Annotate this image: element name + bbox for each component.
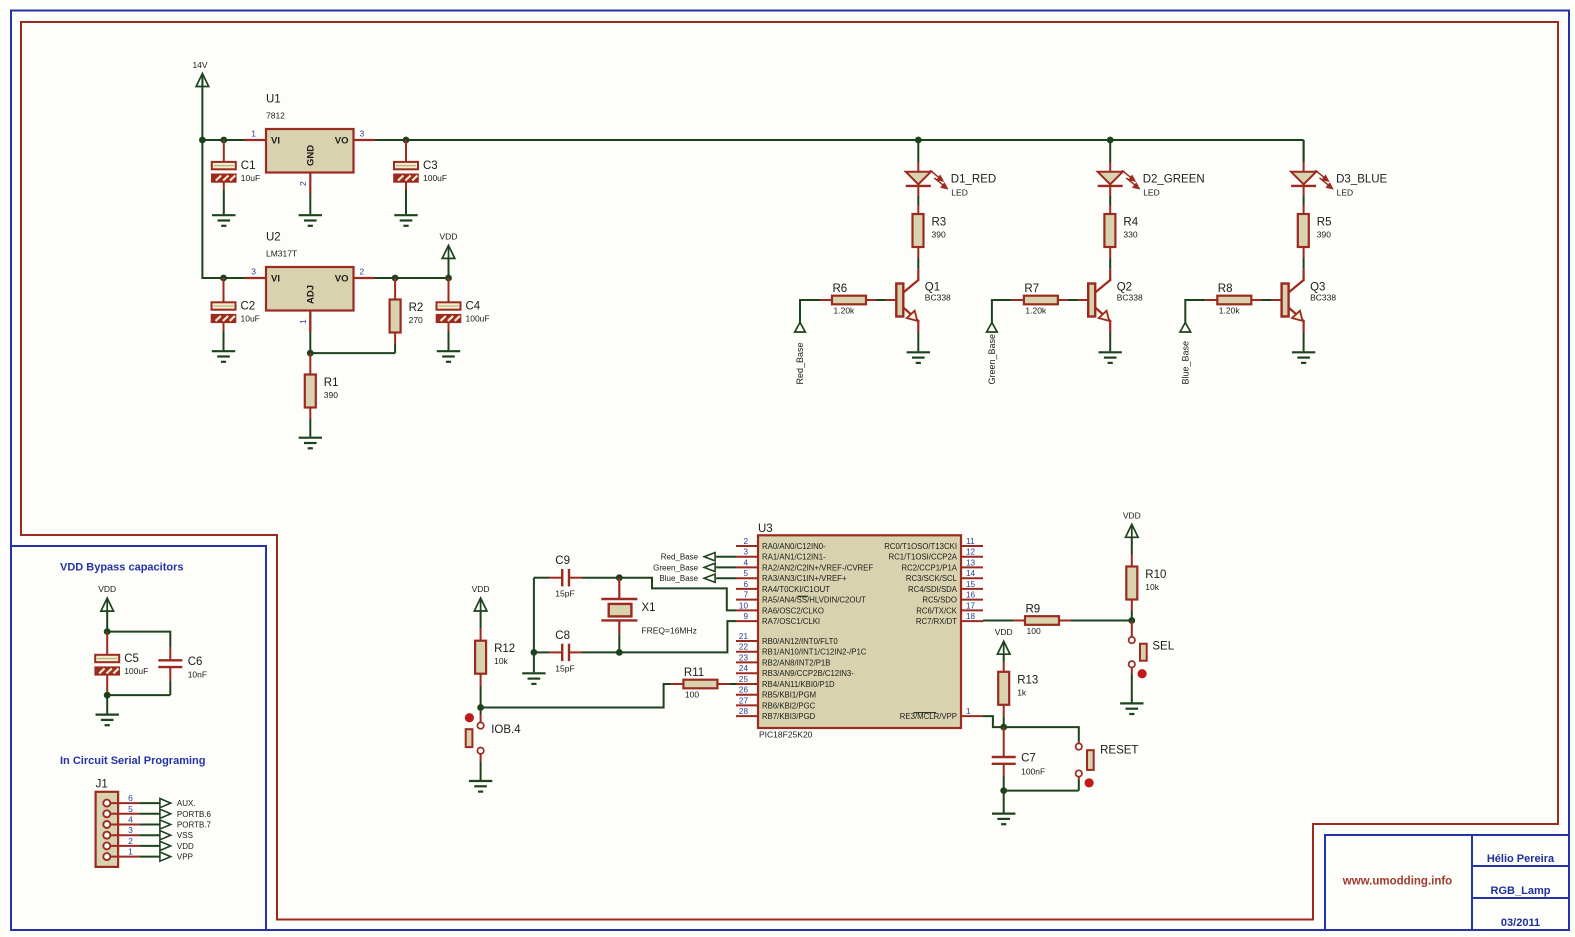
ground C2 [212, 351, 235, 362]
node OSC2 rail [616, 574, 623, 581]
svg-text:25: 25 [739, 675, 749, 684]
svg-text:Green_Base: Green_Base [653, 563, 698, 572]
svg-text:Blue_Base: Blue_Base [659, 574, 698, 583]
svg-text:14V: 14V [192, 60, 207, 70]
svg-text:26: 26 [739, 686, 749, 695]
svg-text:4: 4 [128, 815, 133, 825]
svg-text:330: 330 [1123, 230, 1137, 240]
node bypass bottom [104, 692, 111, 699]
ground C4 [437, 351, 460, 362]
wire [223, 140, 225, 152]
wire [375, 277, 449, 279]
wire to R11 [481, 684, 672, 708]
capacitor C2 [212, 300, 260, 323]
wire [1109, 140, 1111, 162]
wire [569, 651, 582, 653]
wire [223, 182, 225, 191]
svg-text:C3: C3 [423, 160, 438, 172]
wire [106, 674, 108, 682]
wire [405, 140, 407, 152]
svg-text:PIC18F25K20: PIC18F25K20 [759, 730, 813, 740]
svg-text:16: 16 [966, 591, 976, 600]
svg-text:R6: R6 [833, 283, 848, 295]
wire [1068, 299, 1078, 301]
svg-text:1.20k: 1.20k [834, 306, 856, 316]
svg-text:Red_Base: Red_Base [795, 342, 805, 384]
wire [1003, 705, 1005, 717]
svg-text:100uF: 100uF [423, 173, 447, 183]
resistor R9 [1025, 604, 1059, 637]
svg-text:LED: LED [1143, 187, 1160, 197]
svg-text:10uF: 10uF [241, 314, 260, 324]
wire [394, 344, 396, 353]
wire [1059, 620, 1071, 622]
wire [1303, 333, 1305, 352]
node Blue_Base terminal [1180, 323, 1191, 385]
wire [106, 632, 108, 645]
capacitor C4 [437, 300, 490, 323]
wire [917, 258, 919, 269]
svg-text:PORTB.7: PORTB.7 [177, 821, 212, 830]
svg-text:4: 4 [743, 558, 748, 567]
svg-text:LM317T: LM317T [266, 249, 297, 259]
wire [983, 620, 1013, 622]
ground bypass [96, 715, 119, 726]
connector J1 [96, 779, 140, 867]
wire [480, 611, 482, 628]
wire [1003, 727, 1005, 744]
svg-text:GND: GND [306, 145, 317, 166]
node 14V rail [199, 137, 206, 144]
svg-text:www.umodding.info: www.umodding.info [1342, 876, 1452, 888]
svg-text:ADJ: ADJ [306, 285, 317, 304]
svg-text:X1: X1 [642, 602, 656, 614]
wire [1131, 611, 1133, 621]
wire [729, 683, 736, 685]
resistor R11 [683, 667, 717, 700]
wire [405, 152, 407, 162]
ground Q3 [1292, 352, 1315, 363]
svg-text:1: 1 [128, 847, 133, 857]
wire to RESET [1004, 727, 1079, 741]
wire [717, 683, 729, 685]
svg-text:27: 27 [739, 696, 749, 705]
node VDD terminal [160, 841, 194, 851]
wire [1303, 162, 1305, 172]
svg-text:R12: R12 [494, 643, 515, 655]
wire [354, 139, 375, 141]
node Red_Base terminal [795, 323, 806, 385]
svg-text:C2: C2 [241, 300, 256, 312]
svg-text:10uF: 10uF [241, 173, 260, 183]
svg-text:VO: VO [335, 274, 349, 285]
svg-text:SEL: SEL [1152, 640, 1174, 652]
svg-text:23: 23 [739, 653, 749, 662]
svg-text:C6: C6 [188, 656, 203, 668]
svg-text:RA6/OSC2/CLKO: RA6/OSC2/CLKO [762, 606, 824, 615]
svg-text:D1_RED: D1_RED [951, 173, 996, 185]
wire [1003, 791, 1005, 813]
node Blue_Base terminal [659, 574, 715, 583]
svg-text:100nF: 100nF [1021, 766, 1045, 776]
wire [309, 364, 311, 375]
svg-text:R8: R8 [1218, 283, 1233, 295]
node IOB4 node [477, 704, 484, 711]
svg-text:U3: U3 [758, 523, 773, 535]
svg-text:5: 5 [128, 804, 133, 814]
wire [917, 247, 919, 258]
node VDD node [445, 275, 452, 282]
wire [375, 139, 1304, 141]
svg-text:RB1/AN10/INT1/C12IN2-/P1C: RB1/AN10/INT1/C12IN2-/P1C [762, 648, 867, 657]
LED D2_GREEN [1098, 170, 1205, 197]
svg-text:10k: 10k [1145, 582, 1159, 592]
svg-text:100uF: 100uF [466, 314, 490, 324]
wire [309, 311, 311, 332]
wire [1272, 299, 1282, 301]
node Green_Base terminal [653, 563, 715, 572]
wire [866, 299, 876, 301]
wire [448, 278, 450, 291]
wire [1251, 299, 1261, 301]
wire [1109, 333, 1111, 352]
svg-text:Hélio Pereira: Hélio Pereira [1487, 853, 1555, 865]
pushbutton RESET [1076, 743, 1139, 787]
svg-text:9: 9 [743, 612, 748, 621]
node ADJ node [307, 350, 314, 357]
svg-text:R11: R11 [684, 667, 704, 679]
svg-text:21: 21 [739, 632, 749, 641]
wire [1004, 790, 1079, 792]
svg-text:C1: C1 [241, 160, 256, 172]
wire [480, 628, 482, 641]
wire [917, 196, 919, 205]
wire [1131, 554, 1133, 567]
svg-text:IOB.4: IOB.4 [491, 724, 521, 736]
wire [169, 647, 171, 660]
wire [448, 291, 450, 302]
svg-text:7812: 7812 [266, 111, 285, 121]
svg-text:RA5/AN4/SS/HLVDIN/C2OUT: RA5/AN4/SS/HLVDIN/C2OUT [762, 596, 866, 605]
svg-text:R3: R3 [932, 217, 947, 229]
svg-text:Green_Base: Green_Base [987, 334, 997, 385]
node AUX. terminal [160, 799, 196, 809]
wire J1 pin 2 [139, 845, 160, 847]
wire [1109, 162, 1111, 172]
svg-text:RB6/KBI2/PGC: RB6/KBI2/PGC [762, 701, 816, 710]
svg-text:RC3/SCK/SCL: RC3/SCK/SCL [906, 574, 958, 583]
wire [1205, 299, 1217, 301]
power VDD R10 [1123, 510, 1141, 537]
wire [917, 140, 919, 162]
wire [582, 577, 619, 579]
svg-text:RB4/AN11/KBI0/P1D: RB4/AN11/KBI0/P1D [762, 680, 835, 689]
svg-text:BC338: BC338 [1117, 293, 1143, 303]
wire [169, 667, 171, 681]
wire J1 pin 4 [139, 824, 160, 826]
wire [1078, 741, 1080, 744]
svg-text:Red_Base: Red_Base [661, 553, 699, 562]
wire [1078, 780, 1080, 791]
svg-text:2: 2 [360, 267, 365, 277]
svg-text:3: 3 [251, 267, 256, 277]
svg-text:100: 100 [685, 690, 699, 700]
wire [716, 566, 736, 568]
svg-text:RC7/RX/DT: RC7/RX/DT [916, 617, 957, 626]
wire [480, 674, 482, 686]
svg-text:VDD: VDD [177, 842, 194, 851]
svg-text:LED: LED [1337, 187, 1354, 197]
svg-text:PORTB.6: PORTB.6 [177, 810, 212, 819]
svg-text:RA0/AN0/C12IN0-: RA0/AN0/C12IN0- [762, 542, 826, 551]
wire [917, 205, 919, 214]
wire [309, 332, 311, 353]
wire [820, 299, 832, 301]
svg-text:C4: C4 [466, 300, 481, 312]
svg-text:3: 3 [128, 825, 133, 835]
svg-text:6: 6 [743, 580, 748, 589]
wire Red_Base [800, 300, 820, 323]
svg-text:U1: U1 [266, 94, 281, 106]
svg-text:VDD: VDD [98, 584, 116, 594]
wire [394, 278, 396, 300]
svg-text:LED: LED [951, 187, 968, 197]
microcontroller U3 PIC18F25K20 [736, 523, 983, 740]
svg-text:6: 6 [128, 793, 133, 803]
wire [223, 322, 225, 331]
transistor Q2 [1088, 269, 1143, 332]
capacitor C9 [555, 555, 574, 599]
svg-text:7: 7 [743, 591, 748, 600]
svg-text:RA7/OSC1/CLKI: RA7/OSC1/CLKI [762, 617, 820, 626]
svg-text:VDD: VDD [1123, 510, 1141, 520]
wire [1003, 717, 1005, 727]
transistor Q3 [1282, 269, 1337, 332]
wire [480, 708, 482, 715]
wire [448, 258, 450, 278]
wire [1131, 674, 1133, 702]
svg-text:VI: VI [271, 136, 280, 147]
wire [1003, 764, 1005, 776]
wire [309, 353, 311, 364]
capacitor C1 [212, 160, 260, 183]
resistor R8 [1217, 283, 1251, 316]
resistor R10 [1126, 567, 1166, 600]
svg-text:12: 12 [966, 548, 976, 557]
transistor Q1 [896, 269, 951, 332]
wire to pin10 [619, 578, 736, 611]
wire [309, 408, 311, 420]
LED D1_RED [906, 170, 996, 197]
svg-text:RC1/T1OSI/CCP2A: RC1/T1OSI/CCP2A [889, 553, 958, 562]
node left rail node [531, 649, 538, 656]
wire [1013, 620, 1025, 622]
pushbutton IOB.4 [465, 713, 521, 754]
wire [1109, 186, 1111, 196]
svg-text:VDD: VDD [995, 627, 1013, 637]
ground U1 [299, 215, 322, 226]
svg-text:390: 390 [932, 230, 946, 240]
svg-text:100: 100 [1027, 626, 1041, 636]
wire [533, 652, 535, 672]
wire [1003, 744, 1005, 757]
wire [223, 152, 225, 162]
svg-text:2: 2 [298, 181, 308, 186]
wire [1303, 258, 1305, 269]
wire [394, 333, 396, 345]
svg-text:390: 390 [1317, 230, 1331, 240]
svg-text:390: 390 [324, 390, 338, 400]
wire [1303, 140, 1305, 162]
wire [106, 645, 108, 655]
svg-text:RESET: RESET [1100, 744, 1138, 756]
wire [480, 715, 482, 723]
svg-text:Blue_Base: Blue_Base [1181, 341, 1191, 385]
svg-text:17: 17 [966, 601, 976, 610]
svg-text:24: 24 [739, 664, 749, 673]
ground Q2 [1099, 352, 1122, 363]
node C1 tap [220, 137, 227, 144]
wire J1 pin 6 [139, 802, 160, 804]
wire J1 pin 1 [139, 856, 160, 858]
svg-text:VO: VO [335, 136, 349, 147]
svg-text:270: 270 [409, 315, 423, 325]
svg-text:R4: R4 [1123, 217, 1138, 229]
svg-text:RB3/AN9/CCP2B/C12IN3-: RB3/AN9/CCP2B/C12IN3- [762, 669, 854, 678]
svg-text:RC6/TX/CK: RC6/TX/CK [916, 606, 958, 615]
ground R1 [299, 438, 322, 449]
svg-text:3: 3 [360, 129, 365, 139]
wire 14V to U2 [202, 140, 245, 278]
wire C9-C8 left rail [533, 578, 535, 653]
wire [106, 611, 108, 632]
wire Green_Base [992, 300, 1012, 323]
node OSC1 rail [616, 649, 623, 656]
wire [671, 683, 683, 685]
wire [1131, 621, 1133, 638]
svg-text:R2: R2 [409, 302, 424, 314]
svg-text:15: 15 [966, 580, 976, 589]
svg-text:R1: R1 [324, 377, 339, 389]
wire [480, 754, 482, 762]
svg-text:D3_BLUE: D3_BLUE [1336, 173, 1387, 185]
wire [1003, 662, 1005, 672]
wire [1109, 205, 1111, 214]
svg-text:C8: C8 [555, 630, 570, 642]
wire [917, 333, 919, 352]
svg-text:C5: C5 [124, 653, 139, 665]
wire [107, 694, 170, 696]
wire [1003, 654, 1005, 662]
capacitor C5 [95, 653, 148, 676]
wire [480, 686, 482, 708]
title texts [1342, 853, 1555, 929]
svg-text:2: 2 [128, 836, 133, 846]
capacitor C3 [394, 160, 447, 183]
resistor R12 [475, 641, 515, 674]
svg-text:BC338: BC338 [925, 293, 951, 303]
power VDD R13 [995, 627, 1013, 654]
LED D3_BLUE [1291, 170, 1387, 197]
svg-text:RB0/AN12/INT0/FLT0: RB0/AN12/INT0/FLT0 [762, 637, 838, 646]
svg-text:2: 2 [743, 537, 748, 546]
node R2 top node [392, 275, 399, 282]
node SEL node [1128, 617, 1135, 624]
svg-text:15pF: 15pF [555, 589, 574, 599]
wire J1 pin 5 [139, 813, 160, 815]
resistor R1 [305, 375, 339, 408]
svg-text:RB7/KBI3/PGD: RB7/KBI3/PGD [762, 712, 816, 721]
wire MCLR [983, 716, 1004, 727]
node D2_GREEN branch [1107, 137, 1114, 144]
node C2 tap [220, 275, 227, 282]
svg-text:100uF: 100uF [124, 666, 148, 676]
svg-text:RGB_Lamp: RGB_Lamp [1491, 885, 1551, 897]
svg-text:10: 10 [739, 601, 749, 610]
svg-text:J1: J1 [96, 779, 108, 791]
wire [1078, 776, 1080, 780]
wire [1303, 247, 1305, 258]
svg-text:VI: VI [271, 274, 280, 285]
wire [716, 577, 736, 579]
svg-text:1k: 1k [1017, 687, 1027, 697]
wire [1303, 205, 1305, 214]
node C3 tap [403, 137, 410, 144]
svg-text:RC5/SDO: RC5/SDO [922, 596, 957, 605]
wire [1131, 600, 1133, 612]
svg-text:VDD Bypass capacitors: VDD Bypass capacitors [60, 562, 184, 574]
svg-text:U2: U2 [266, 232, 281, 244]
node D1_RED branch [915, 137, 922, 144]
svg-text:RB5/KBI1/PGM: RB5/KBI1/PGM [762, 691, 816, 700]
wire [917, 162, 919, 172]
svg-text:RC0/T1OSO/T13CKI: RC0/T1OSO/T13CKI [884, 542, 957, 551]
node Red_Base terminal [661, 553, 715, 562]
wire [223, 291, 225, 302]
node PORTB.7 terminal [160, 820, 212, 830]
resistor R3 [913, 214, 947, 247]
svg-text:C7: C7 [1021, 753, 1036, 765]
svg-text:R10: R10 [1145, 569, 1166, 581]
svg-text:1: 1 [966, 707, 971, 716]
annotation box [11, 546, 266, 930]
svg-text:28: 28 [739, 707, 749, 716]
wire [1303, 186, 1305, 196]
wire [1071, 620, 1132, 622]
wire [169, 681, 171, 695]
wire [106, 695, 108, 714]
node VSS terminal [160, 831, 193, 841]
wire [1303, 196, 1305, 205]
wire [876, 299, 886, 301]
wire to pin9 [619, 621, 736, 652]
svg-text:In Circuit Serial Programing: In Circuit Serial Programing [60, 755, 205, 767]
wire [1109, 247, 1111, 258]
ground SEL [1120, 703, 1143, 714]
svg-text:RA1/AN1/C12IN1-: RA1/AN1/C12IN1- [762, 553, 826, 562]
wire [1058, 299, 1068, 301]
svg-text:3: 3 [743, 548, 748, 557]
node VPP terminal [160, 852, 193, 862]
svg-text:VDD: VDD [440, 231, 458, 241]
svg-text:RC4/SDI/SDA: RC4/SDI/SDA [908, 585, 958, 594]
svg-text:03/2011: 03/2011 [1501, 917, 1540, 929]
wire [549, 651, 562, 653]
wire to C6 [107, 632, 170, 647]
wire [1109, 196, 1111, 205]
capacitor C8 [555, 630, 574, 674]
svg-text:BC338: BC338 [1310, 293, 1336, 303]
